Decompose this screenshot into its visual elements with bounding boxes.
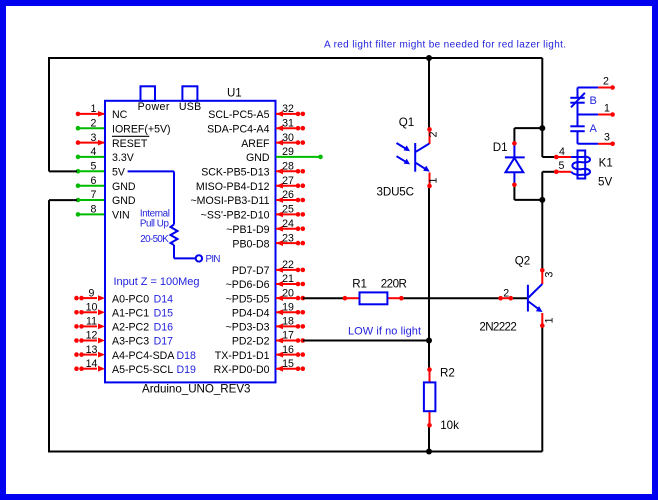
svg-text:USB: USB: [179, 101, 201, 113]
svg-text:A4-PC4-SDA: A4-PC4-SDA: [112, 350, 175, 362]
transistor Q2 symbol: [527, 285, 529, 312]
pin 26 ~MOSI-PB3-D11 stub: [276, 199, 298, 201]
contact branch vertical wires: [577, 88, 579, 98]
svg-text:A: A: [590, 123, 598, 135]
pin 8 VIN stub: [78, 213, 104, 215]
svg-text:A0-PC0: A0-PC0: [112, 293, 149, 305]
svg-text:31: 31: [282, 117, 294, 129]
pin 11 A2-PC2 stub: [82, 325, 98, 327]
svg-text:MISO-PB4-D12: MISO-PB4-D12: [196, 181, 270, 193]
USB connector box: [182, 86, 197, 101]
pin 4 3.3V stub: [78, 156, 104, 158]
svg-text:D16: D16: [154, 322, 174, 334]
svg-text:28: 28: [282, 161, 294, 173]
wire pin20 to R1 to Q2 base: [303, 297, 345, 299]
svg-text:14: 14: [86, 358, 98, 370]
pin 19 PD4-D4 stub: [276, 311, 298, 313]
contact B actuator stroke: [571, 93, 585, 108]
internal pull-up wire from 5V: [128, 170, 174, 172]
pin 7 GND stub: [78, 199, 104, 201]
svg-text:2: 2: [503, 288, 509, 300]
svg-text:30: 30: [282, 132, 294, 144]
pin 5 5V stub: [78, 170, 104, 172]
svg-text:~SS'-PB2-D10: ~SS'-PB2-D10: [201, 210, 270, 222]
svg-text:AREF: AREF: [241, 138, 270, 150]
wire to relay pin4: [542, 156, 555, 158]
resistor R2 body: [424, 382, 436, 411]
svg-text:GND: GND: [246, 152, 270, 164]
svg-text:D17: D17: [154, 336, 174, 348]
pin 3 RESET stub: [78, 142, 104, 144]
relay K1 pin5 lead: [556, 171, 571, 173]
svg-text:D15: D15: [154, 308, 174, 320]
svg-text:20-50K: 20-50K: [140, 234, 169, 245]
wire right vertical top: [541, 58, 543, 157]
pin 28 SCK-PB5-D13 stub: [276, 170, 298, 172]
pin 14 A5-PC5-SCL stub: [82, 368, 98, 370]
svg-text:1: 1: [91, 103, 97, 115]
svg-text:5V: 5V: [112, 167, 126, 179]
svg-text:2N2222: 2N2222: [479, 320, 516, 333]
pin 12 A3-PC3 stub: [82, 340, 98, 342]
relay K1 coil winding: [571, 157, 590, 175]
wire left vertical to pin5: [48, 57, 50, 171]
svg-text:Power: Power: [138, 101, 170, 113]
svg-text:GND: GND: [112, 181, 136, 193]
svg-text:3.3V: 3.3V: [112, 152, 135, 164]
svg-text:~MOSI-PB3-D11: ~MOSI-PB3-D11: [191, 195, 270, 207]
svg-text:9: 9: [89, 287, 95, 299]
pin 15 RX-PD0-D0 stub: [276, 368, 298, 370]
svg-text:29: 29: [282, 146, 294, 158]
svg-text:5: 5: [91, 161, 97, 173]
svg-text:5V: 5V: [598, 176, 612, 189]
internal pull-up resistor zigzag 20-50K: [171, 225, 178, 246]
svg-text:~PD6-D6: ~PD6-D6: [226, 279, 270, 291]
wire top rail 5V: [49, 57, 542, 59]
diode D1 symbol: [505, 156, 525, 158]
wire D1 branch top: [514, 127, 542, 129]
Q1 light arrow 1: [397, 143, 406, 149]
transistor Q2 collector lead: [541, 270, 543, 284]
pin 16 TX-PD1-D1 stub: [276, 354, 298, 356]
svg-text:32: 32: [282, 103, 294, 115]
transistor Q1 pin1 lead: [429, 173, 431, 187]
svg-text:SCL-PC5-A5: SCL-PC5-A5: [208, 109, 269, 121]
pin 25 ~SS'-PB2-D10 stub: [276, 213, 298, 215]
svg-text:10k: 10k: [440, 419, 459, 432]
op IC U1 Arduino_UNO_REV3 body: [105, 101, 276, 383]
wire to relay pin5: [542, 171, 555, 173]
svg-text:D18: D18: [177, 350, 197, 362]
pin 20 ~PD5-D5 stub: [276, 297, 298, 299]
svg-text:NC: NC: [112, 109, 128, 121]
svg-text:3: 3: [543, 271, 555, 277]
svg-text:D19: D19: [177, 364, 197, 376]
pin 10 A1-PC1 stub: [82, 311, 98, 313]
Q1 light arrow 2: [397, 156, 406, 162]
junction node D2/R2: [426, 338, 432, 344]
svg-text:U1: U1: [227, 88, 242, 100]
svg-text:4: 4: [559, 146, 565, 158]
svg-text:16: 16: [282, 344, 294, 356]
svg-text:K1: K1: [599, 157, 613, 170]
pin 22 PD7-D7 stub: [276, 269, 298, 271]
wire bottom rail GND: [48, 451, 542, 453]
svg-text:8: 8: [91, 204, 97, 216]
svg-text:5: 5: [559, 160, 565, 172]
contact B plates: [570, 97, 584, 99]
svg-text:23: 23: [282, 232, 294, 244]
svg-text:Q1: Q1: [399, 116, 414, 129]
pin 1 NC stub: [78, 113, 104, 115]
svg-text:RX-PD0-D0: RX-PD0-D0: [214, 364, 270, 376]
svg-text:TX-PD1-D1: TX-PD1-D1: [215, 350, 270, 362]
pin 31 SDA-PC4-A4 stub: [276, 127, 298, 129]
svg-text:VIN: VIN: [112, 210, 130, 222]
svg-text:24: 24: [282, 218, 294, 230]
resistor R1 body: [360, 292, 388, 304]
pin 24 ~PB1-D9 stub: [276, 228, 298, 230]
svg-text:Q2: Q2: [515, 254, 530, 267]
svg-text:3: 3: [604, 132, 610, 144]
junction node bottom: [426, 449, 432, 455]
svg-text:6: 6: [91, 175, 97, 187]
svg-text:3: 3: [91, 132, 97, 144]
svg-text:B: B: [590, 95, 597, 107]
transistor Q2 base lead: [501, 297, 511, 299]
pin 27 MISO-PB4-D12 stub: [276, 185, 298, 187]
svg-text:19: 19: [282, 302, 294, 314]
wire pin17 to node: [303, 340, 429, 342]
svg-text:1: 1: [604, 103, 610, 115]
svg-text:A5-PC5-SCL: A5-PC5-SCL: [112, 364, 173, 376]
svg-text:PD2-D2: PD2-D2: [232, 336, 270, 348]
svg-text:SDA-PC4-A4: SDA-PC4-A4: [207, 123, 270, 135]
svg-text:25: 25: [282, 204, 294, 216]
pin 2 IOREF(+5V) stub: [78, 127, 104, 129]
svg-text:A1-PC1: A1-PC1: [112, 308, 149, 320]
svg-text:SCK-PB5-D13: SCK-PB5-D13: [201, 167, 269, 179]
pin 32 SCL-PC5-A5 stub: [276, 113, 298, 115]
RESET overline: [112, 135, 149, 137]
diode D1 leads: [513, 143, 515, 157]
pin 17 PD2-D2 stub: [276, 340, 298, 342]
wire right vertical bottom: [541, 326, 543, 452]
svg-text:2: 2: [603, 76, 609, 88]
wire pin7 GND to bottom rail: [49, 199, 77, 201]
contact tap 1: [578, 114, 599, 116]
pin 21 ~PD6-D6 stub: [276, 283, 298, 285]
svg-text:20: 20: [282, 287, 294, 299]
svg-text:PD7-D7: PD7-D7: [232, 265, 270, 277]
pin 9 A0-PC0 stub: [82, 297, 98, 299]
svg-text:22: 22: [282, 259, 294, 271]
svg-text:7: 7: [91, 189, 97, 201]
svg-text:D1: D1: [493, 141, 508, 154]
svg-text:RESET: RESET: [112, 138, 148, 150]
svg-text:1: 1: [428, 177, 440, 183]
pin 29 GND stub: [276, 156, 321, 158]
svg-text:17: 17: [282, 330, 294, 342]
svg-text:15: 15: [282, 358, 294, 370]
svg-text:D14: D14: [154, 293, 174, 305]
resistor R2 leads: [429, 370, 431, 383]
svg-text:GND: GND: [112, 195, 136, 207]
svg-text:11: 11: [86, 316, 97, 328]
svg-text:PD4-D4: PD4-D4: [232, 308, 270, 320]
transistor Q1 pin2 lead: [429, 129, 431, 144]
pin 6 GND stub: [78, 185, 104, 187]
contact tap 3: [578, 143, 599, 145]
svg-text:2: 2: [427, 131, 439, 137]
svg-text:LOW if no light: LOW if no light: [348, 326, 421, 338]
relay K1 pin4 lead: [556, 156, 571, 158]
junction node D1 top: [539, 125, 545, 131]
contact A plates: [570, 125, 584, 127]
svg-text:3DU5C: 3DU5C: [377, 186, 415, 199]
junction node top: [426, 55, 432, 61]
svg-text:1: 1: [543, 317, 555, 323]
svg-text:A3-PC3: A3-PC3: [112, 336, 149, 348]
pin 18 ~PD3-D3 stub: [276, 325, 298, 327]
svg-text:13: 13: [86, 344, 98, 356]
svg-text:27: 27: [282, 175, 294, 187]
Power connector box: [141, 86, 156, 101]
pin 23 PB0-D8 stub: [276, 242, 298, 244]
svg-text:Pull Up: Pull Up: [140, 219, 170, 230]
svg-text:26: 26: [282, 189, 294, 201]
svg-text:PB0-D8: PB0-D8: [232, 238, 269, 250]
svg-text:21: 21: [282, 273, 294, 285]
pin 13 A4-PC4-SDA stub: [82, 354, 98, 356]
svg-text:Arduino_UNO_REV3: Arduino_UNO_REV3: [142, 382, 251, 395]
svg-text:R2: R2: [440, 367, 455, 380]
svg-text:220R: 220R: [381, 278, 407, 291]
svg-text:A red light filter might be ne: A red light filter might be needed for r…: [324, 40, 566, 51]
svg-text:~PD5-D5: ~PD5-D5: [226, 293, 270, 305]
svg-text:R1: R1: [352, 278, 367, 291]
contact tap 2: [578, 87, 599, 89]
svg-text:IOREF(+5V): IOREF(+5V): [112, 123, 171, 135]
svg-text:~PB1-D9: ~PB1-D9: [226, 224, 269, 236]
pin 30 AREF stub: [276, 142, 298, 144]
svg-text:2: 2: [91, 117, 97, 129]
relay K1 coil core: [578, 151, 586, 179]
transistor Q1 symbol 3DU5C: [414, 143, 416, 172]
svg-text:10: 10: [86, 302, 98, 314]
wire Q1 branch: [428, 58, 430, 129]
svg-text:18: 18: [282, 316, 294, 328]
svg-text:PIN: PIN: [206, 254, 221, 265]
transistor Q2 emitter lead: [541, 313, 543, 326]
svg-text:4: 4: [91, 146, 97, 158]
svg-text:A2-PC2: A2-PC2: [112, 322, 149, 334]
svg-text:Input Z = 100Meg: Input Z = 100Meg: [114, 276, 200, 288]
svg-text:12: 12: [86, 330, 98, 342]
PIN terminal circle: [196, 255, 202, 261]
wire D1 branch bottom: [513, 185, 515, 200]
junction node D1 bottom: [539, 197, 545, 203]
resistor R1 leads: [345, 297, 360, 299]
svg-text:~PD3-D3: ~PD3-D3: [226, 322, 270, 334]
